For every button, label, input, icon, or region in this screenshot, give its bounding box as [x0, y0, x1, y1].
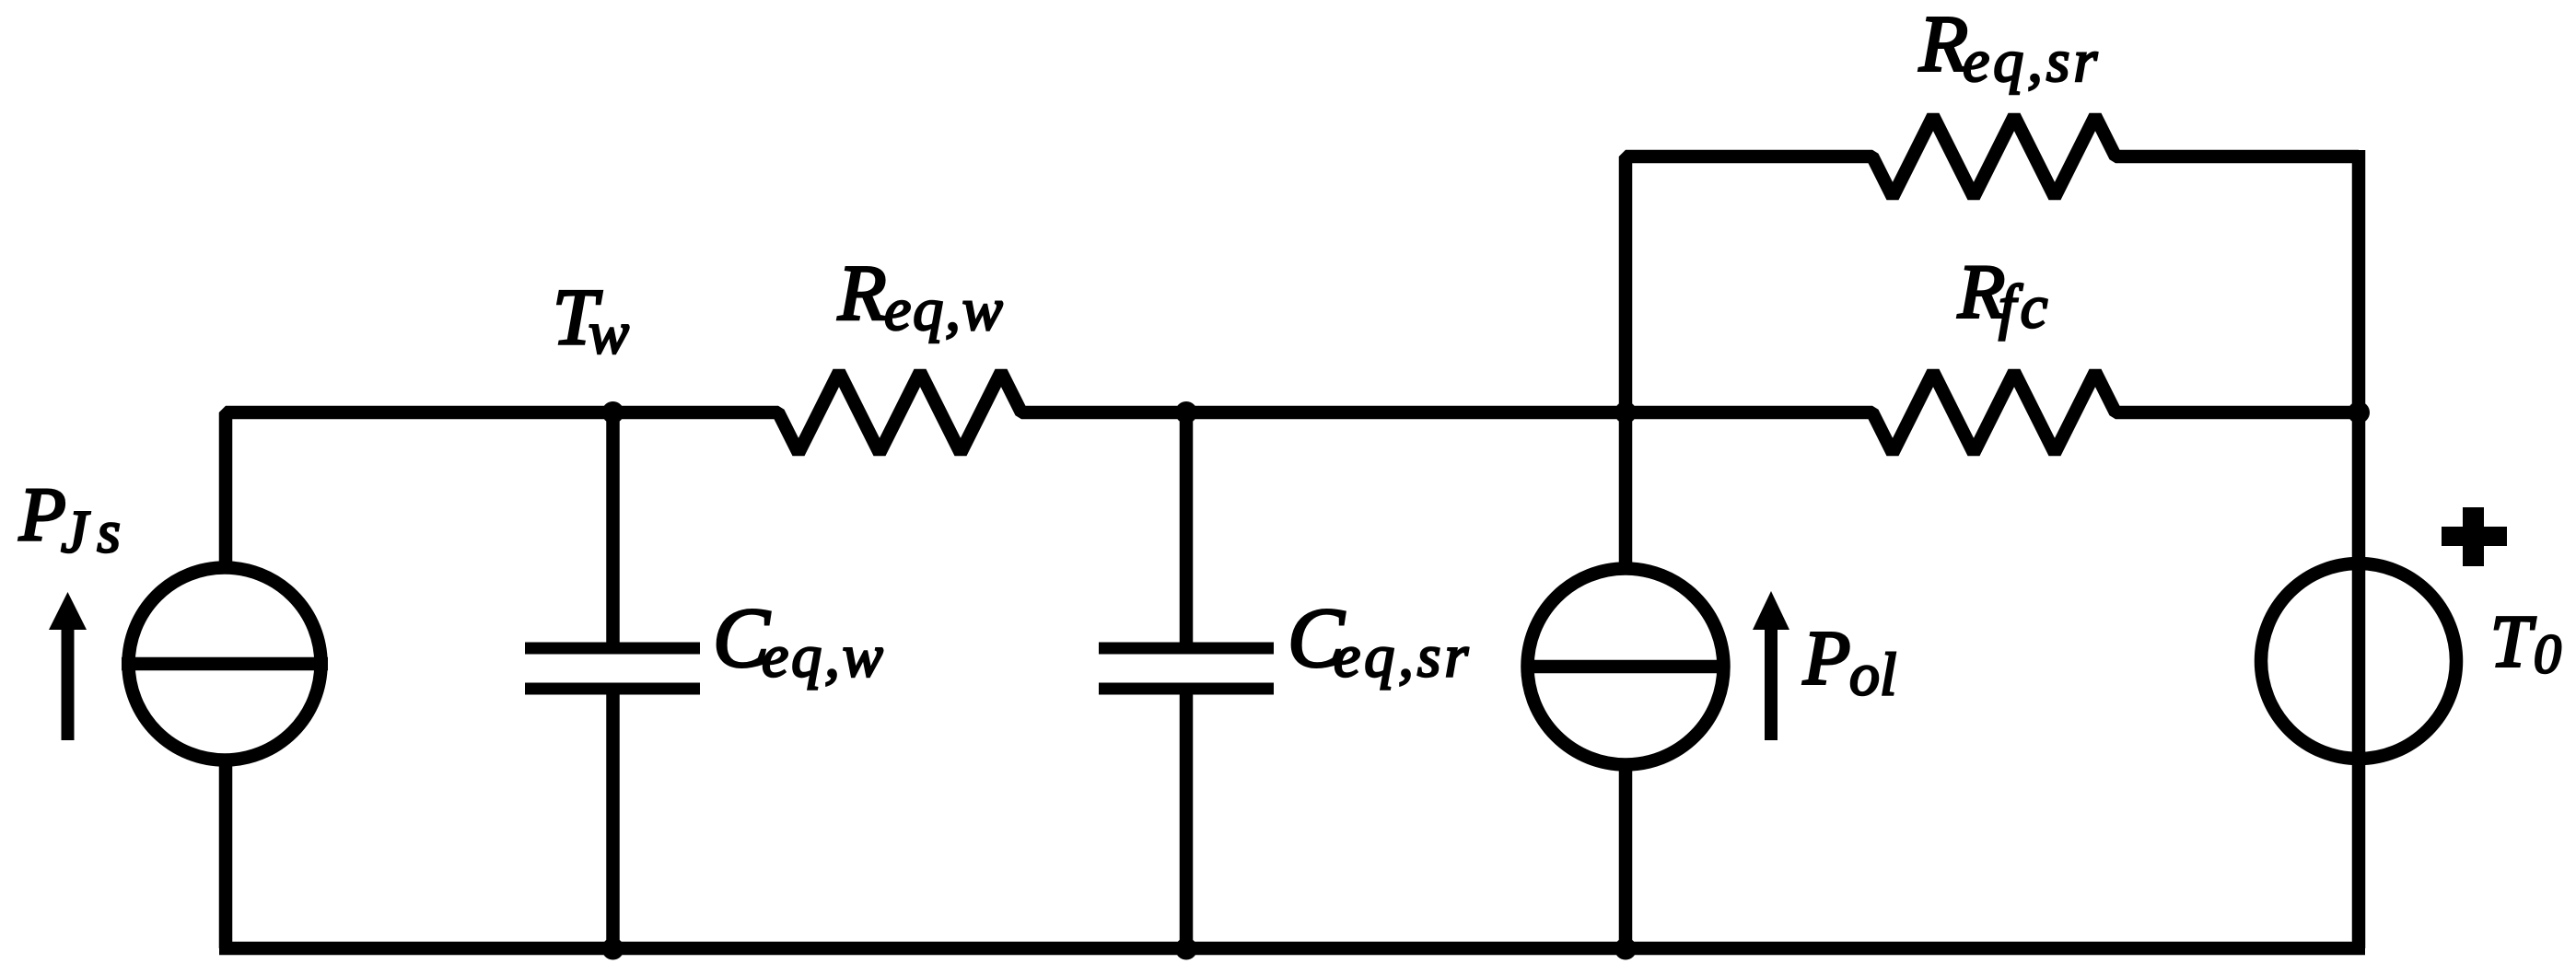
svg-text:R: R — [837, 249, 887, 337]
svg-text:ol: ol — [1849, 642, 1896, 709]
svg-text:eq,w: eq,w — [884, 276, 1005, 343]
svg-text:eq,w: eq,w — [762, 623, 886, 691]
svg-text:eq,sr: eq,sr — [1963, 28, 2101, 95]
svg-text:fc: fc — [1999, 273, 2052, 342]
svg-text:eq,sr: eq,sr — [1334, 623, 1472, 691]
svg-text:P: P — [18, 472, 66, 557]
svg-text:P: P — [1802, 616, 1850, 702]
svg-text:T: T — [2490, 602, 2536, 683]
svg-text:Js: Js — [61, 499, 130, 566]
svg-text:0: 0 — [2534, 624, 2561, 685]
svg-text:R: R — [1918, 0, 1968, 88]
svg-text:w: w — [589, 300, 629, 367]
